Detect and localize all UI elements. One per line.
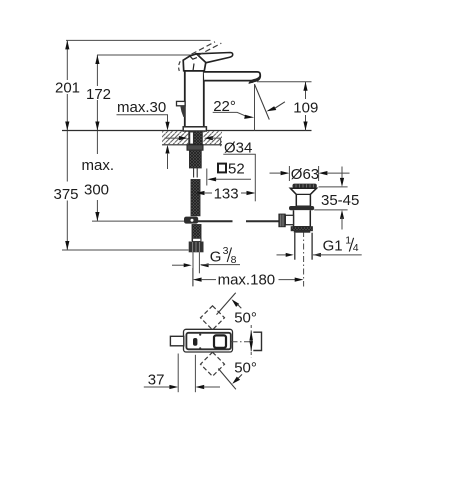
dimension 22 degrees <box>213 98 255 119</box>
raised lever dashed lines <box>192 42 222 56</box>
lever swivel dashed arc <box>179 61 181 71</box>
waste body <box>294 210 311 226</box>
waste funnel <box>290 188 316 206</box>
water stream reference vertical <box>254 84 256 130</box>
svg-text:max.30: max.30 <box>117 99 166 116</box>
plan view spout centerline dash-dot <box>232 341 253 343</box>
svg-text:G: G <box>210 249 222 266</box>
threaded shank lower part <box>190 150 202 168</box>
dimension 109 <box>293 82 318 131</box>
waste outlet pipe <box>295 233 312 260</box>
pop-up knob on body side <box>177 101 186 117</box>
svg-text:max.180: max.180 <box>218 271 276 288</box>
spout aerator outlet <box>249 76 261 84</box>
svg-text:1: 1 <box>345 235 351 247</box>
waste lock nut <box>291 227 312 233</box>
extension lines basin clamping (35-45 datums) <box>314 187 347 210</box>
svg-text:Ø34: Ø34 <box>224 139 252 156</box>
dimension G 3/8 <box>172 245 240 267</box>
water stream angled line <box>255 84 270 119</box>
waste plug cap <box>293 184 317 189</box>
tee junction of pop-up rod <box>184 217 198 224</box>
svg-text:375: 375 <box>54 186 79 203</box>
dimension max.180 <box>193 268 304 288</box>
extension line hose end (375 datum) <box>62 249 189 251</box>
dimension max.30 <box>117 99 170 169</box>
lever knob <box>183 54 206 71</box>
svg-text:300: 300 <box>84 181 109 198</box>
plan view screw dots <box>199 334 201 350</box>
svg-text:52: 52 <box>228 161 245 178</box>
lever blade <box>197 53 233 63</box>
dimension max.300 <box>82 131 115 222</box>
dimension 172 <box>86 55 111 131</box>
svg-text:3: 3 <box>223 245 229 257</box>
svg-text:50°: 50° <box>234 310 257 327</box>
dimension diameter 63 <box>270 166 350 183</box>
extension line spout outlet (109 datum) <box>257 81 312 83</box>
G 3/8 nipple <box>189 238 204 252</box>
spout outlet projection vertical (133 datum) <box>254 154 256 201</box>
dimension G 1 1/4 <box>277 235 362 257</box>
svg-text:37: 37 <box>148 371 165 388</box>
extension line rod tee level (max.300 datum) <box>92 220 184 222</box>
mounting deck top surface line <box>62 130 312 132</box>
plan view handle plate inner outline <box>186 333 230 350</box>
plan view outer body outline <box>184 329 233 352</box>
handle swing dashed square lower <box>200 352 224 376</box>
svg-text:8: 8 <box>231 254 237 266</box>
plan view aerator square <box>214 335 226 347</box>
drain centerline dashed <box>303 231 305 287</box>
svg-text:50°: 50° <box>234 360 257 377</box>
pull rod thin section <box>194 168 198 178</box>
svg-text:4: 4 <box>353 242 359 254</box>
plan view side bracket <box>253 332 261 350</box>
waste side tailpiece <box>279 214 294 227</box>
dimension square 52 <box>207 161 251 186</box>
faucet spout arm <box>204 72 260 81</box>
extension line top of faucet lever (172 datum) <box>97 54 233 56</box>
svg-text:109: 109 <box>293 100 318 117</box>
plan view lever end tab <box>170 336 183 346</box>
threaded shank through deck <box>189 131 203 145</box>
faucet base plate <box>183 127 206 131</box>
dimension 37 <box>144 354 220 393</box>
mounting deck slab with hatch <box>162 131 222 145</box>
rod end extension lines <box>193 252 199 286</box>
flexible hose braided section <box>191 180 200 216</box>
svg-text:35-45: 35-45 <box>321 192 359 209</box>
faucet body column <box>185 71 204 127</box>
pop-up actuating rod horizontal <box>198 220 280 222</box>
svg-text:133: 133 <box>214 185 239 202</box>
svg-text:G1: G1 <box>323 237 343 254</box>
plan view width arrows <box>249 325 253 357</box>
svg-text:max.: max. <box>82 157 115 174</box>
dimension 201 <box>55 40 80 130</box>
svg-text:201: 201 <box>55 80 80 97</box>
dimension 375 <box>54 131 79 251</box>
leader arrow to stream line <box>266 102 285 112</box>
50 degree swing line lower <box>218 360 257 390</box>
mounting nut under deck <box>187 145 203 150</box>
dimension 133 <box>196 185 256 202</box>
waste seat flange <box>289 206 314 210</box>
braided section below tee <box>192 225 201 241</box>
handle swing dashed square upper <box>200 306 224 330</box>
dimension 35-45 <box>321 167 359 230</box>
extension line top of lifted lever (201 datum) <box>66 39 211 41</box>
svg-text:172: 172 <box>86 86 111 103</box>
svg-text:Ø63: Ø63 <box>291 166 319 183</box>
plan view lever slot <box>193 338 197 346</box>
50 degree swing line upper <box>217 293 257 327</box>
dimension Arrow pair diameter 34 <box>165 136 256 156</box>
